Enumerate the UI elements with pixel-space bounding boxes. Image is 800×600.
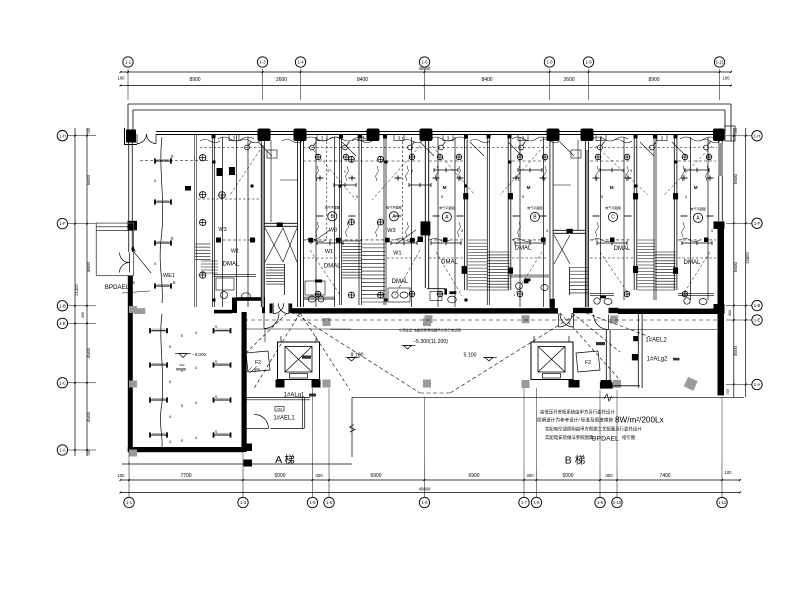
- bay1 small black box: [185, 186, 191, 191]
- svg-text:1-B: 1-B: [59, 303, 66, 308]
- bay3 partition left: [326, 137, 328, 240]
- svg-text:小商业区,电缆桥架等线路甲方另行电话商: 小商业区,电缆桥架等线路甲方另行电话商: [399, 327, 462, 332]
- svg-text:A 梯: A 梯: [275, 453, 295, 466]
- svg-text:1-H: 1-H: [59, 133, 66, 138]
- svg-text:DMAL: DMAL: [515, 245, 532, 251]
- svg-text:1-10: 1-10: [613, 500, 622, 505]
- top wall grid column blocks: [258, 129, 271, 142]
- bottom grid bubble 1-6: [419, 497, 429, 507]
- entry door arc top-left: [137, 134, 147, 144]
- svg-text:1-8: 1-8: [546, 60, 553, 65]
- svg-text:1-11: 1-11: [715, 60, 724, 65]
- bay3 stair left rail: [358, 137, 360, 305]
- svg-text:1-9: 1-9: [585, 60, 592, 65]
- svg-text:5000: 5000: [274, 473, 285, 479]
- svg-text:1-3: 1-3: [259, 60, 266, 65]
- corridor upper line: [244, 328, 351, 330]
- core2 stair rail: [569, 267, 571, 295]
- svg-text:W3: W3: [329, 228, 337, 234]
- svg-text:BPDAEL: BPDAEL: [105, 284, 130, 291]
- svg-text:21300: 21300: [74, 284, 79, 296]
- bay6 stair right wall: [673, 137, 675, 290]
- svg-text:5: 5: [522, 195, 524, 199]
- right vestibule door arc: [594, 315, 609, 330]
- svg-text:B 梯: B 梯: [565, 454, 585, 467]
- svg-text:F2: F2: [255, 360, 261, 366]
- svg-text:S: S: [172, 280, 175, 285]
- bay4 dash terminal blocks: [418, 237, 424, 243]
- bay1 lamp row 2: [155, 201, 171, 203]
- bay4 stair right wall: [507, 137, 509, 290]
- bottom grid bubble 1-6: [324, 497, 334, 507]
- elevator1 lobby walls: [244, 397, 311, 399]
- top grid bubble 1-1: [123, 57, 133, 67]
- left wall thin mid: [128, 230, 130, 252]
- svg-text:5: 5: [711, 229, 713, 233]
- right outer wall upper thin: [718, 135, 720, 221]
- svg-text:DMAL: DMAL: [441, 260, 458, 266]
- svg-text:4500: 4500: [86, 411, 91, 422]
- top grid bubble 1-4: [295, 57, 305, 67]
- svg-text:8W/m²/200Lx: 8W/m²/200Lx: [615, 416, 664, 425]
- bay1 black blocks at y170: [217, 168, 223, 176]
- svg-text:1#ALg2: 1#ALg2: [647, 357, 668, 363]
- lobby wall step horizontal: [237, 297, 263, 301]
- svg-text:4500: 4500: [86, 347, 91, 358]
- right long wall: [637, 314, 639, 388]
- bottom grid bubble 1-8: [531, 497, 541, 507]
- top-right corner column: [713, 129, 725, 142]
- svg-text:W1: W1: [231, 249, 239, 255]
- corridor black columns right side: [569, 380, 580, 388]
- core2 stair treads: [570, 267, 588, 269]
- svg-text:DMAL: DMAL: [614, 246, 631, 252]
- right wall column block: [714, 221, 725, 229]
- bay1 inner partition: [236, 135, 238, 307]
- lower-left ground line: [122, 463, 352, 465]
- unit door boxes with 3 labels on top wall: [229, 135, 239, 141]
- svg-text:1-1: 1-1: [125, 60, 132, 65]
- svg-text:W3: W3: [387, 228, 395, 234]
- left wall column block: [128, 221, 138, 231]
- left grid bubble 1-H: [57, 131, 67, 141]
- bay3 bathroom right: [388, 288, 410, 302]
- building top wall: [156, 131, 722, 133]
- svg-text:1-11: 1-11: [718, 500, 727, 505]
- level mark triangle 1: [404, 346, 412, 350]
- svg-text:S: S: [181, 404, 184, 408]
- wall hug squiggles under top wall: [200, 139, 220, 143]
- svg-text:1-8: 1-8: [533, 500, 540, 505]
- break mark on lower boundary: [604, 394, 612, 401]
- svg-text:100: 100: [118, 473, 126, 478]
- bay3 wall blocks row: [308, 238, 313, 243]
- svg-text:8900: 8900: [648, 77, 659, 83]
- socket ticks row1: [317, 177, 324, 179]
- svg-text:4: 4: [327, 169, 329, 173]
- unit wiring arcs top band: [218, 137, 254, 141]
- bay3 circled letter A: [389, 212, 398, 221]
- elevator2 outer shaft: [531, 342, 573, 380]
- top dimension line tier1: [121, 71, 732, 73]
- outer frame right connector box: [725, 126, 735, 141]
- right grid bubble 1-H: [752, 131, 762, 141]
- bay1 dashed circuits: [218, 239, 256, 241]
- svg-text:16800: 16800: [745, 252, 750, 264]
- lobby wall step vertical right: [262, 297, 265, 313]
- bottom grid bubble 1-9: [595, 497, 605, 507]
- svg-text:1-3: 1-3: [240, 500, 247, 505]
- bay6 stair left rail: [653, 137, 655, 300]
- svg-text:WE1: WE1: [163, 273, 175, 279]
- level mark triangle 2: [348, 358, 356, 362]
- bay1 bathroom walls: [214, 274, 257, 276]
- bay3 dashed circuit row: [303, 239, 423, 241]
- bay4 bathroom right walls: [510, 274, 550, 276]
- svg-text:S: S: [215, 360, 218, 364]
- svg-text:1-6: 1-6: [421, 500, 428, 505]
- elevator1 counterweight box: [290, 374, 308, 379]
- top grid bubble 1-8: [544, 57, 554, 67]
- svg-text:8900: 8900: [189, 77, 200, 83]
- svg-text:5: 5: [630, 169, 632, 173]
- bottom grid bubble 1-10: [612, 497, 622, 507]
- svg-text:8400: 8400: [357, 77, 368, 83]
- svg-text:4: 4: [685, 195, 687, 199]
- door arc at AEL1: [255, 415, 269, 429]
- corridor dashed feeder diagonals left: [253, 313, 300, 390]
- svg-text:1-C: 1-C: [59, 380, 66, 385]
- bay3 left wall: [299, 140, 301, 307]
- bottom grid bubble 1-5: [307, 497, 317, 507]
- svg-text:DMAL: DMAL: [223, 262, 240, 268]
- svg-text:1#AEL1: 1#AEL1: [273, 416, 295, 422]
- bay1 stair small treads: [195, 243, 210, 245]
- svg-text:502: 502: [179, 363, 184, 367]
- svg-text:1-5: 1-5: [309, 500, 316, 505]
- unit wiring arcs mid band: [306, 239, 326, 242]
- top grid bubble 1-11: [714, 57, 724, 67]
- svg-text:5: 5: [356, 195, 358, 199]
- right dimension line outer: [745, 128, 747, 397]
- left grid bubble 1-F: [57, 218, 67, 228]
- main bottom thick wall segment 2: [292, 308, 558, 313]
- left dimension line outer: [74, 128, 76, 456]
- core1 bottom door opening arcs: [273, 303, 284, 314]
- bottom grid bubble 1-1: [124, 497, 134, 507]
- interior wall top caps: [212, 134, 216, 138]
- bay3 mid horizontal bars: [314, 239, 316, 242]
- bay4 stair treads: [468, 239, 487, 241]
- svg-text:2600: 2600: [276, 77, 287, 83]
- svg-text:4500: 4500: [733, 345, 738, 356]
- svg-text:8400: 8400: [481, 77, 492, 83]
- svg-text:1-9: 1-9: [597, 500, 604, 505]
- lower zone top boundary line: [352, 396, 744, 398]
- bottom dimension line tier1: [121, 479, 741, 481]
- main bottom thick wall segment 3: [573, 308, 593, 313]
- bay6 circled letter C: [608, 212, 617, 221]
- bay1 lamp row 1: [155, 160, 171, 162]
- grey diamond paver: [684, 377, 698, 391]
- left dimension ticks: [86, 135, 88, 137]
- bay1 stair small treads b: [201, 260, 218, 262]
- core2 left wall: [549, 140, 551, 307]
- svg-text:5: 5: [601, 195, 603, 199]
- bay3 center stair treads: [342, 240, 361, 242]
- svg-text:100: 100: [723, 76, 731, 81]
- svg-text:300: 300: [526, 473, 534, 478]
- left F2 hatch: [247, 367, 252, 372]
- svg-text:1-7: 1-7: [521, 500, 528, 505]
- bay3 circled letter B: [328, 212, 337, 221]
- tower circuit riser: [160, 314, 162, 448]
- bay3 wall right-mid: [383, 137, 385, 305]
- core2 elevator top wall block: [567, 229, 573, 234]
- svg-text:1-1: 1-1: [126, 500, 133, 505]
- bay1 lamp row 4: [155, 285, 171, 287]
- svg-text:2600: 2600: [563, 77, 574, 83]
- svg-text:1-H: 1-H: [754, 133, 761, 138]
- bottom grid bubble 1-3: [238, 497, 248, 507]
- svg-text:5: 5: [461, 229, 463, 233]
- elevator1 rail stubs: [280, 336, 282, 342]
- A-tower right wall thick: [242, 312, 247, 452]
- bay3 center stair treads right run: [362, 243, 386, 245]
- svg-text:5600: 5600: [86, 174, 91, 185]
- lower zone left vertical boundary: [351, 397, 353, 457]
- svg-text:1-A: 1-A: [754, 382, 761, 387]
- diagonal dashed feeders in units: [310, 146, 356, 200]
- right zone bottom wall: [612, 385, 640, 387]
- core1 machine room partitions: [270, 140, 272, 222]
- main bottom thick wall segment 3b: [609, 308, 619, 313]
- svg-text:S: S: [170, 154, 173, 159]
- svg-text:1-A: 1-A: [59, 448, 66, 453]
- svg-text:M: M: [610, 185, 614, 190]
- bay6 stair treads: [638, 239, 656, 241]
- porch outline: [96, 223, 133, 276]
- right outer wall lower thick: [718, 228, 725, 395]
- svg-text:7700: 7700: [180, 473, 191, 479]
- bay4 dashed circuit rows: [429, 239, 463, 241]
- switch symbols row under top wall: [245, 145, 250, 150]
- main bottom thick wall right segment: [618, 309, 724, 314]
- bay6 circled letter A: [693, 213, 702, 222]
- bay3 bathroom grey floor band: [304, 297, 335, 301]
- corridor dashed along top: [244, 319, 717, 321]
- bay4 circled letter A: [442, 212, 451, 221]
- top grid bubble 1-6: [419, 57, 429, 67]
- left outer wall upper thin: [128, 135, 130, 221]
- svg-text:配电: 配电: [254, 367, 260, 372]
- core1 hoistway diagonals: [265, 228, 283, 262]
- bottom grid bubble 1-11: [717, 497, 727, 507]
- extra unit partitions thin: [222, 137, 224, 307]
- bay3 bathroom left: [305, 281, 325, 295]
- bay1 lamp symbols narrow room: [200, 155, 206, 161]
- left grid bubble 1-B: [57, 301, 67, 311]
- svg-text:DMAL: DMAL: [684, 260, 701, 266]
- svg-text:1-6: 1-6: [326, 500, 333, 505]
- bay3 wall left-mid: [339, 137, 341, 305]
- vertical squiggle wires: [316, 166, 319, 181]
- svg-text:电气平面图: 电气平面图: [386, 205, 401, 210]
- svg-text:高低压开关柜系统由甲方另行委托设计: 高低压开关柜系统由甲方另行委托设计: [540, 409, 615, 416]
- porch leader arrow: [132, 249, 152, 273]
- right dimension ticks: [733, 135, 735, 137]
- svg-text:S: S: [215, 395, 218, 399]
- core1 elevator top wall block: [277, 223, 283, 228]
- svg-text:300: 300: [315, 473, 323, 478]
- extra lamp circles upper row: [315, 154, 321, 160]
- right grid bubble 1-E: [752, 315, 762, 325]
- top dimension line tier2: [121, 85, 732, 87]
- socket ticks row2: [317, 215, 324, 217]
- bay6 bathroom right: [678, 293, 714, 295]
- right vestibule black base: [600, 382, 613, 388]
- tower lamp rows: [150, 330, 167, 332]
- svg-text:−3.000: −3.000: [192, 352, 207, 357]
- svg-text:1-E: 1-E: [59, 321, 66, 326]
- svg-text:6900: 6900: [370, 473, 381, 479]
- outer frame left verticals: [127, 104, 129, 135]
- elevator lobby lower room walls: [301, 397, 303, 428]
- door arc tower exit to corridor: [264, 314, 279, 329]
- top-left corner column: [126, 130, 136, 143]
- bottom grid bubble 1-7: [519, 497, 529, 507]
- bottom wall black corner at core1: [550, 299, 555, 311]
- outer frame top double line: [128, 103, 731, 105]
- svg-text:100: 100: [87, 128, 91, 134]
- svg-text:7400: 7400: [659, 473, 670, 479]
- left grid bubble 1-A: [57, 445, 67, 455]
- corridor grey columns upper row: [323, 318, 331, 326]
- svg-text:实配电空调照明由甲方根据工艺配置另行委托设计: 实配电空调照明由甲方根据工艺配置另行委托设计: [545, 426, 642, 433]
- F2 box right: [576, 351, 600, 372]
- svg-text:1#ALg1: 1#ALg1: [284, 393, 305, 399]
- bay6 stair treads upper: [655, 251, 676, 253]
- bay4 circled letter B: [530, 212, 539, 221]
- svg-text:5.100: 5.100: [464, 353, 477, 359]
- elevator1 outer shaft: [278, 342, 320, 380]
- grid stems lower: [424, 398, 426, 463]
- core2 right wall grey: [585, 150, 588, 307]
- svg-text:−5.300(11.200): −5.300(11.200): [413, 339, 448, 345]
- core2 hoistway diagonals: [554, 235, 570, 264]
- left dimension line inner: [86, 128, 88, 456]
- right vestibule wall: [605, 330, 607, 382]
- break mark on vertical boundary: [350, 425, 356, 433]
- svg-text:BPDAEL: BPDAEL: [592, 436, 619, 443]
- svg-text:DM: DM: [277, 407, 282, 411]
- elevator1 car with X: [285, 347, 312, 373]
- bay6 dashed circuit rows: [590, 239, 631, 241]
- svg-text:1-B: 1-B: [754, 303, 761, 308]
- bay3 antenna branch lines: [310, 230, 330, 244]
- bay1 black blocks row: [216, 238, 221, 243]
- svg-text:5: 5: [441, 195, 443, 199]
- grey tick small: [176, 368, 186, 371]
- A-tower grey block near wall base: [134, 308, 146, 314]
- top dimension ticks: [127, 71, 129, 73]
- horizontal track bars with mid tick: [317, 242, 343, 244]
- svg-text:F2: F2: [585, 360, 591, 366]
- bay1 lamp circle: [219, 192, 226, 199]
- outer frame right verticals: [730, 104, 732, 141]
- bay1 circuit riser line: [160, 137, 163, 303]
- svg-text:100: 100: [725, 470, 733, 475]
- left outer wall lower thick: [128, 276, 133, 452]
- left grid bubble 1-E: [57, 318, 67, 328]
- svg-text:300: 300: [728, 310, 732, 316]
- DM meter box: [275, 407, 284, 412]
- bay3 dashed circuit row upper: [303, 160, 423, 162]
- svg-text:1-4: 1-4: [297, 60, 304, 65]
- svg-text:4: 4: [546, 229, 548, 233]
- right grid bubble 1-F: [752, 218, 762, 228]
- bay6 bathroom left: [590, 293, 614, 295]
- tower bottom-right black columns: [244, 444, 253, 452]
- svg-text:实配电安装做法参照图集: 实配电安装做法参照图集: [545, 434, 594, 441]
- svg-text:M: M: [527, 185, 531, 190]
- bay4 room wall w blocks: [464, 137, 466, 290]
- svg-text:6900: 6900: [468, 473, 479, 479]
- bay4 left wall: [424, 137, 426, 288]
- svg-text:S: S: [215, 430, 218, 434]
- bay4 stair rail 1: [486, 137, 488, 305]
- svg-text:100: 100: [734, 128, 738, 134]
- svg-text:40800: 40800: [419, 487, 431, 492]
- bay4 bathroom left walls: [427, 288, 445, 290]
- svg-text:1#AEL2: 1#AEL2: [645, 338, 667, 344]
- top grid bubble 1-9: [583, 57, 593, 67]
- core1 stair treads: [266, 264, 285, 266]
- svg-text:5600: 5600: [733, 173, 738, 184]
- svg-text:5000: 5000: [562, 473, 573, 479]
- svg-text:S: S: [170, 236, 173, 241]
- bay4 left wall big black block: [421, 221, 431, 235]
- elevator2 counterweight box: [543, 374, 561, 379]
- svg-text:1-E: 1-E: [754, 318, 761, 323]
- svg-text:1-F: 1-F: [754, 221, 761, 226]
- main bottom thick wall left segment: [214, 310, 233, 314]
- bottom dimension line tier2: [121, 492, 741, 494]
- small dark label mid-corridor: [302, 356, 311, 359]
- svg-text:S: S: [181, 439, 184, 443]
- core1 exit door jambs: [270, 304, 273, 314]
- bay4 black distribution box: [524, 279, 529, 283]
- right dimension line inner: [733, 128, 735, 397]
- core1 left wall grey: [261, 145, 264, 307]
- svg-text:DMAL: DMAL: [392, 279, 409, 285]
- svg-text:5600: 5600: [733, 261, 738, 272]
- bay1 right wall: [211, 135, 213, 307]
- elevator2 rail stubs: [533, 336, 535, 342]
- svg-text:W1: W1: [393, 250, 401, 256]
- svg-text:电气平面图: 电气平面图: [439, 205, 454, 210]
- svg-text:S: S: [215, 325, 218, 329]
- corridor dashed feeder diagonals right: [572, 313, 620, 352]
- bay1 bathroom fixtures: [221, 292, 228, 299]
- porch top double lines: [96, 226, 133, 228]
- bay6 partition wall 1: [633, 137, 635, 290]
- black dots on walls: [213, 161, 216, 164]
- bay1 lamp row 3: [155, 242, 171, 244]
- svg-text:电气平面图: 电气平面图: [325, 205, 340, 210]
- bottom wall black corner right end: [714, 304, 725, 314]
- svg-text:1-6: 1-6: [421, 60, 428, 65]
